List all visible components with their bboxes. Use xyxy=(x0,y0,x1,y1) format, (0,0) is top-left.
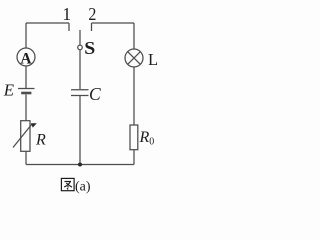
svg-text:A: A xyxy=(20,51,32,68)
svg-text:E: E xyxy=(3,81,15,100)
svg-text:2: 2 xyxy=(88,4,96,24)
svg-text:R: R xyxy=(35,131,46,148)
svg-text:C: C xyxy=(89,84,101,104)
svg-text:1: 1 xyxy=(62,4,71,24)
svg-text:S: S xyxy=(84,38,95,58)
svg-text:(a): (a) xyxy=(75,180,91,195)
svg-text:L: L xyxy=(148,50,157,69)
svg-text:R0: R0 xyxy=(139,129,155,148)
